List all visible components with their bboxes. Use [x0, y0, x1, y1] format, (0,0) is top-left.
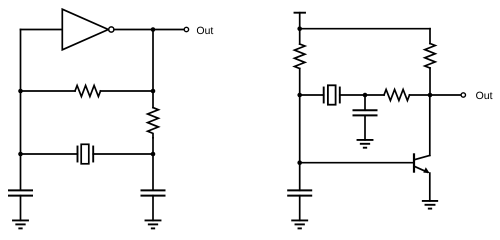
- ground under C1: [13, 219, 28, 221]
- capacitor C4: [288, 189, 311, 191]
- transistor Q1 base bar: [413, 154, 415, 171]
- terminal Out right: [461, 93, 465, 97]
- wire C4 to ground: [299, 196, 301, 221]
- transistor Q1 emitter arrowhead: [423, 167, 429, 173]
- wire rail to top node: [299, 13, 301, 29]
- node top: [297, 26, 302, 31]
- wire C3 to ground: [364, 115, 366, 139]
- crystal X1 right plate: [92, 147, 94, 162]
- resistor R3 vertical left: [295, 44, 305, 69]
- wire C3 top lead: [364, 95, 366, 110]
- wire to Out terminal right: [430, 94, 460, 96]
- wire feedback row left: [21, 90, 76, 92]
- op-amp U1 inverter triangle: [62, 9, 108, 50]
- node base row: [297, 160, 302, 165]
- wire right vertical top segment: [152, 30, 154, 108]
- wire to R4 top: [429, 29, 431, 44]
- wire collector vertical: [429, 95, 431, 155]
- crystal X1 body: [81, 144, 89, 164]
- wire feedback row right: [101, 90, 154, 92]
- ground under emitter: [423, 200, 437, 202]
- wire emitter vertical: [429, 173, 431, 201]
- node output junction: [151, 27, 156, 32]
- crystal X2 left plate: [323, 88, 325, 103]
- wire inverter output: [114, 29, 184, 31]
- capacitor C3: [354, 109, 377, 111]
- ground under C4: [292, 219, 307, 221]
- node feedback right: [151, 89, 156, 94]
- label Out right: [476, 92, 492, 99]
- wire left vertical rail left circuit: [20, 30, 22, 191]
- transistor Q1 emitter diagonal: [414, 166, 428, 172]
- wire crystal to C3 node: [340, 94, 365, 96]
- wire R4 bottom to node: [429, 68, 431, 95]
- node crystal right: [151, 152, 156, 157]
- wire R3 bottom to node: [299, 69, 301, 96]
- crystal X2 body: [328, 85, 336, 104]
- wire to R3 top: [299, 29, 301, 44]
- wire input of inverter: [21, 29, 63, 31]
- resistor R1 horizontal feedback: [75, 86, 101, 97]
- node feedback left: [18, 89, 23, 94]
- wire top horizontal: [300, 28, 430, 30]
- terminal Out left: [184, 27, 188, 31]
- resistor R4 vertical right: [425, 44, 435, 69]
- resistor R2 vertical: [148, 108, 159, 138]
- crystal X1 left plate: [77, 147, 79, 162]
- node crystal row left right circuit: [297, 93, 302, 98]
- wire C1 to ground: [20, 196, 22, 221]
- crystal X2 right plate: [339, 88, 341, 103]
- wire crystal row right: [93, 153, 153, 155]
- ground under C3: [358, 139, 373, 141]
- wire left vertical to base row and C4: [299, 95, 301, 190]
- node collector row: [428, 93, 433, 98]
- wire crystal row left: [21, 153, 78, 155]
- node crystal left: [18, 152, 23, 157]
- wire node to R5: [365, 94, 384, 96]
- wire base: [300, 162, 413, 164]
- capacitor C1: [9, 189, 32, 191]
- resistor R5 horizontal: [384, 90, 410, 101]
- wire right vertical mid segment: [152, 138, 154, 190]
- capacitor C2: [142, 189, 165, 191]
- label Out left: [197, 27, 213, 34]
- wire R5 to collector node: [410, 94, 431, 96]
- ground under C2: [146, 219, 161, 221]
- wire node to crystal: [300, 94, 324, 96]
- inverter bubble: [109, 27, 114, 32]
- transistor Q1 collector diagonal: [414, 155, 430, 159]
- node C3 top: [363, 93, 368, 98]
- wire C2 to ground: [152, 196, 154, 221]
- power rail bar: [295, 12, 306, 14]
